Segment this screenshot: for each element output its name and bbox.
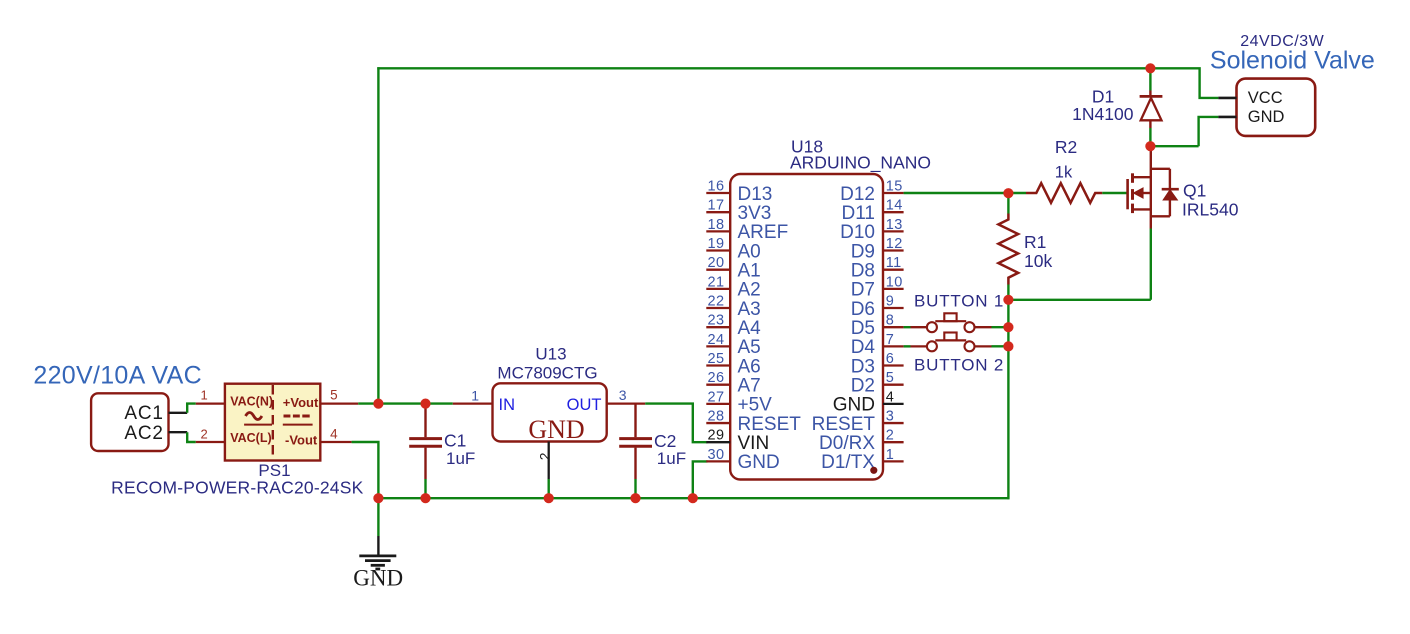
junction R1 bottom / Q1 source: [1003, 295, 1013, 305]
Q1 name label: [1183, 181, 1206, 201]
svg-text:RECOM-POWER-RAC20-24SK: RECOM-POWER-RAC20-24SK: [111, 478, 363, 498]
U18 pin 8 D5: [851, 313, 904, 339]
svg-text:2: 2: [537, 452, 553, 460]
label 24VDC/3W: [1240, 33, 1324, 50]
label Solenoid Valve: [1210, 46, 1375, 74]
svg-text:ARDUINO_NANO: ARDUINO_NANO: [790, 153, 931, 174]
svg-text:AC1: AC1: [124, 403, 163, 424]
U13 pin 3 stub: [607, 402, 646, 404]
U13 name label: [535, 344, 566, 363]
label 220V/10A VAC: [33, 361, 202, 389]
svg-text:6: 6: [886, 351, 894, 367]
svg-text:A3: A3: [738, 299, 761, 320]
U13 text IN: [499, 396, 516, 414]
svg-text:A6: A6: [738, 356, 761, 377]
D1 name label: [1092, 87, 1114, 107]
junction C2 bottom: [630, 493, 640, 503]
svg-text:VIN: VIN: [738, 433, 770, 454]
U18 name label: [791, 137, 823, 157]
svg-text:5: 5: [886, 370, 894, 386]
svg-text:Solenoid Valve: Solenoid Valve: [1210, 46, 1375, 74]
U18 pin 6 D3: [851, 351, 904, 377]
U13 value label MC7809CTG: [497, 363, 597, 382]
svg-text:A2: A2: [738, 280, 761, 301]
svg-text:D1/TX: D1/TX: [821, 452, 875, 473]
PS1 value label RECOM-POWER-RAC20-24SK: [111, 478, 363, 498]
svg-text:BUTTON 2: BUTTON 2: [914, 356, 1004, 375]
PS1 DC symbol dashes: [284, 415, 310, 418]
ground bus horizontal: [377, 497, 1009, 499]
solenoid VCC pin stub: [1218, 97, 1236, 100]
svg-text:D10: D10: [840, 222, 875, 243]
svg-text:VAC(L): VAC(L): [230, 431, 271, 445]
diode D1: [1140, 68, 1163, 147]
U18 pin 9 D6: [851, 294, 904, 320]
U18 pin 27 +5V: [706, 389, 772, 415]
D1 value label 1N4100: [1072, 104, 1134, 124]
svg-text:1: 1: [471, 387, 479, 403]
wire node +Vout to C1 and U13 IN: [378, 402, 452, 404]
svg-text:OUT: OUT: [567, 396, 602, 414]
svg-text:3: 3: [886, 409, 894, 425]
R2 name label: [1055, 137, 1077, 157]
svg-text:A4: A4: [738, 318, 762, 339]
svg-text:3: 3: [619, 387, 627, 403]
junction BUTTON 1 right: [1003, 322, 1013, 332]
PS1 name label: [258, 461, 290, 480]
U18 pin 19 A0: [706, 236, 760, 262]
IC U18 Arduino Nano body: [730, 174, 883, 480]
svg-text:D3: D3: [851, 356, 875, 377]
svg-text:GND: GND: [738, 452, 780, 473]
U13 pin 1 number: [471, 387, 479, 403]
earth ground symbol: [359, 498, 396, 569]
svg-text:-Vout: -Vout: [285, 433, 318, 448]
U18 pin 20 A1: [706, 255, 760, 281]
U13 text OUT: [567, 396, 602, 414]
junction C1 top: [420, 399, 430, 409]
capacitor C2: [619, 404, 652, 499]
svg-text:27: 27: [708, 389, 725, 405]
wire ground: -Vout to ground bus: [352, 442, 379, 498]
U13 pin 2 number: [537, 452, 553, 460]
connector solenoid valve box: [1237, 79, 1316, 136]
U18 pin 11 D8: [851, 255, 904, 281]
svg-text:1N4100: 1N4100: [1072, 104, 1134, 124]
svg-text:25: 25: [708, 351, 725, 367]
PS1 text +Vout: [283, 395, 319, 410]
wire +Vout to 24V rail: [358, 402, 378, 404]
PS1 AC symbol underline: [244, 424, 272, 426]
power module PS1 body: [225, 384, 320, 461]
svg-text:+Vout: +Vout: [283, 395, 319, 410]
svg-text:R2: R2: [1055, 137, 1077, 157]
svg-text:29: 29: [708, 428, 725, 444]
wire Arduino GND pin30 to ground bus: [693, 461, 708, 498]
junction 24V rail / D1 anode: [1145, 63, 1155, 73]
junction ground at -Vout: [373, 493, 383, 503]
svg-text:16: 16: [708, 179, 725, 195]
PS1 pin 4 stub: [320, 441, 351, 443]
svg-text:23: 23: [708, 313, 725, 329]
U18 pin 2 D0/RX: [819, 428, 904, 454]
U18 pin 23 A4: [706, 313, 761, 339]
svg-text:19: 19: [708, 236, 725, 252]
U13 pin 2 lead: [548, 442, 550, 499]
PS1 text VAC(L): [230, 431, 271, 445]
PS1 pin 1 number: [201, 388, 208, 403]
junction U13 GND pin: [544, 493, 554, 503]
svg-text:D13: D13: [738, 184, 773, 205]
svg-text:8: 8: [886, 313, 894, 329]
svg-text:1uF: 1uF: [657, 449, 686, 468]
svg-text:1: 1: [886, 447, 894, 463]
svg-text:Q1: Q1: [1183, 181, 1206, 201]
svg-text:A5: A5: [738, 337, 761, 358]
PS1 internal divider: [272, 385, 274, 460]
U18 pin 24 A5: [706, 332, 760, 358]
PS1 pin 2 stub: [196, 441, 225, 443]
U18 pin 17 3V3: [706, 198, 771, 224]
wire 24V rail vertical: [377, 67, 379, 404]
BUTTON 2 label: [914, 356, 1004, 375]
svg-text:15: 15: [886, 179, 903, 195]
U18 pin 18 AREF: [706, 217, 788, 243]
U18 pin 12 D9: [851, 236, 904, 262]
svg-text:28: 28: [708, 409, 725, 425]
junction +Vout rail: [373, 399, 383, 409]
svg-text:VAC(N): VAC(N): [230, 394, 273, 408]
junction node A (D12/R2/R1): [1003, 188, 1013, 198]
pushbutton BUTTON 1: [904, 313, 1009, 332]
wire 24V rail top bus to solenoid VCC: [377, 68, 1218, 98]
U18 pin 30 GND: [706, 447, 779, 473]
BUTTON 1 label: [914, 292, 1004, 311]
svg-text:R1: R1: [1024, 232, 1046, 252]
svg-text:20: 20: [708, 255, 725, 271]
U18 pin 13 D10: [840, 217, 903, 243]
U13 pin 1 stub: [453, 402, 493, 404]
wire U13 OUT to Arduino VIN: [645, 404, 707, 443]
wire AC2 to PS1 pin 2: [187, 432, 196, 442]
wire D1 bottom to Q1 drain and solenoid GND: [1150, 117, 1218, 146]
svg-text:21: 21: [708, 274, 725, 290]
svg-text:D9: D9: [851, 241, 875, 262]
svg-text:D4: D4: [851, 337, 876, 358]
PS1 pin 2 number: [201, 426, 208, 441]
AC1 pin stub: [169, 412, 188, 414]
svg-text:4: 4: [886, 389, 894, 405]
C1 value label 1uF: [446, 449, 475, 468]
U18 pin 22 A3: [706, 294, 760, 320]
U18 pin 1 D1/TX: [821, 447, 903, 473]
junction C1 bottom: [420, 493, 430, 503]
PS1 DC symbol underline: [283, 424, 313, 426]
U18 internal dot near D1/TX: [870, 467, 877, 474]
resistor R2: [1008, 183, 1127, 203]
junction BUTTON 2 right: [1003, 341, 1013, 351]
C1 name label: [444, 430, 466, 450]
svg-text:9: 9: [886, 294, 894, 310]
svg-text:30: 30: [708, 447, 725, 463]
svg-text:2: 2: [201, 426, 208, 441]
wire ground riser to buttons: [1007, 285, 1009, 500]
svg-text:18: 18: [708, 217, 725, 233]
svg-text:220V/10A VAC: 220V/10A VAC: [33, 361, 202, 389]
svg-text:D12: D12: [840, 184, 875, 205]
pushbutton BUTTON 2: [904, 333, 1009, 352]
svg-text:GND: GND: [353, 566, 403, 591]
svg-text:GND: GND: [1248, 108, 1285, 126]
transistor Q1: [1128, 151, 1179, 229]
AC2 pin label: [124, 423, 163, 444]
U13 pin 3 number: [619, 387, 627, 403]
svg-text:A0: A0: [738, 241, 761, 262]
wire Q1 source to R1 bottom node: [1007, 229, 1151, 300]
U18 pin 7 D4: [851, 332, 904, 358]
svg-text:3V3: 3V3: [738, 203, 772, 224]
svg-text:14: 14: [886, 198, 903, 214]
U18 pin 15 D12: [840, 179, 903, 205]
svg-text:RESET: RESET: [812, 414, 876, 435]
svg-text:1uF: 1uF: [446, 449, 475, 468]
svg-text:GND: GND: [528, 415, 584, 444]
svg-text:A1: A1: [738, 260, 761, 281]
svg-text:1k: 1k: [1055, 163, 1073, 181]
U18 pin 28 RESET: [706, 409, 801, 435]
svg-text:IN: IN: [499, 396, 516, 414]
U18 value label ARDUINO_NANO: [790, 153, 931, 174]
junction VIN/GND riser: [688, 493, 698, 503]
svg-text:26: 26: [708, 370, 725, 386]
R1 name label: [1024, 232, 1046, 252]
R2 value label 1k: [1055, 163, 1073, 181]
solenoid GND pin label: [1248, 108, 1285, 126]
svg-text:D2: D2: [851, 376, 875, 397]
PS1 text -Vout: [285, 433, 318, 448]
PS1 text VAC(N): [230, 394, 273, 408]
svg-text:MC7809CTG: MC7809CTG: [497, 363, 597, 382]
svg-text:U13: U13: [535, 344, 566, 363]
Q1 value label IRL540: [1182, 200, 1239, 220]
svg-text:10k: 10k: [1024, 251, 1052, 271]
regulator U13 body: [493, 383, 607, 441]
svg-text:D8: D8: [851, 260, 875, 281]
solenoid GND pin stub: [1218, 116, 1236, 119]
U18 pin 16 D13: [706, 179, 772, 205]
U18 pin 29 VIN: [706, 428, 769, 454]
svg-text:D11: D11: [842, 203, 875, 224]
C2 value label 1uF: [657, 449, 686, 468]
svg-text:D0/RX: D0/RX: [819, 433, 875, 454]
capacitor C1: [409, 404, 442, 499]
ground label GND: [353, 566, 403, 591]
junction D1 cathode / Q1 drain: [1145, 141, 1155, 151]
svg-text:AREF: AREF: [738, 222, 789, 243]
C2 name label: [654, 431, 676, 451]
svg-text:11: 11: [886, 255, 902, 271]
svg-text:7: 7: [886, 332, 894, 348]
svg-text:4: 4: [330, 426, 338, 441]
svg-text:RESET: RESET: [738, 414, 802, 435]
wire AC1 to PS1 pin 1: [187, 404, 196, 413]
U18 pin 25 A6: [706, 351, 760, 377]
U18 pin 26 A7: [706, 370, 760, 396]
U18 pin 3 RESET: [812, 409, 904, 435]
U13 text GND: [528, 415, 584, 444]
PS1 pin 5 stub: [320, 402, 358, 404]
svg-text:2: 2: [886, 428, 894, 444]
svg-text:+5V: +5V: [738, 395, 773, 416]
svg-text:24: 24: [708, 332, 725, 348]
wire D12 to node A: [904, 192, 1009, 194]
svg-text:BUTTON 1: BUTTON 1: [914, 292, 1004, 311]
svg-text:D5: D5: [851, 318, 875, 339]
svg-text:C1: C1: [444, 430, 466, 450]
svg-text:5: 5: [330, 388, 338, 403]
svg-text:12: 12: [886, 236, 903, 252]
svg-text:D7: D7: [851, 280, 875, 301]
resistor R1: [998, 193, 1018, 285]
R1 value label 10k: [1024, 251, 1052, 271]
U18 pin 5 D2: [851, 370, 904, 396]
PS1 pin 1 stub: [196, 402, 225, 404]
connector AC input box: [91, 393, 168, 451]
svg-text:AC2: AC2: [124, 423, 163, 444]
svg-text:GND: GND: [833, 395, 875, 416]
solenoid VCC pin label: [1248, 89, 1283, 107]
svg-text:A7: A7: [738, 376, 761, 397]
U18 pin 4 GND: [833, 389, 904, 415]
U18 pin 21 A2: [706, 274, 760, 300]
svg-text:D6: D6: [851, 299, 875, 320]
AC2 pin stub: [169, 431, 188, 433]
PS1 pin 4 number: [330, 426, 338, 441]
svg-text:C2: C2: [654, 431, 676, 451]
U18 pin 10 D7: [851, 274, 904, 300]
svg-text:17: 17: [708, 198, 725, 214]
svg-text:10: 10: [886, 274, 903, 290]
svg-text:1: 1: [201, 388, 208, 403]
U18 pin 14 D11: [842, 198, 904, 224]
svg-text:22: 22: [708, 294, 725, 310]
svg-text:13: 13: [886, 217, 903, 233]
svg-text:IRL540: IRL540: [1182, 200, 1239, 220]
svg-text:VCC: VCC: [1248, 89, 1283, 107]
AC1 pin label: [124, 403, 163, 424]
PS1 AC symbol tilde: [246, 413, 262, 420]
PS1 pin 5 number: [330, 388, 338, 403]
